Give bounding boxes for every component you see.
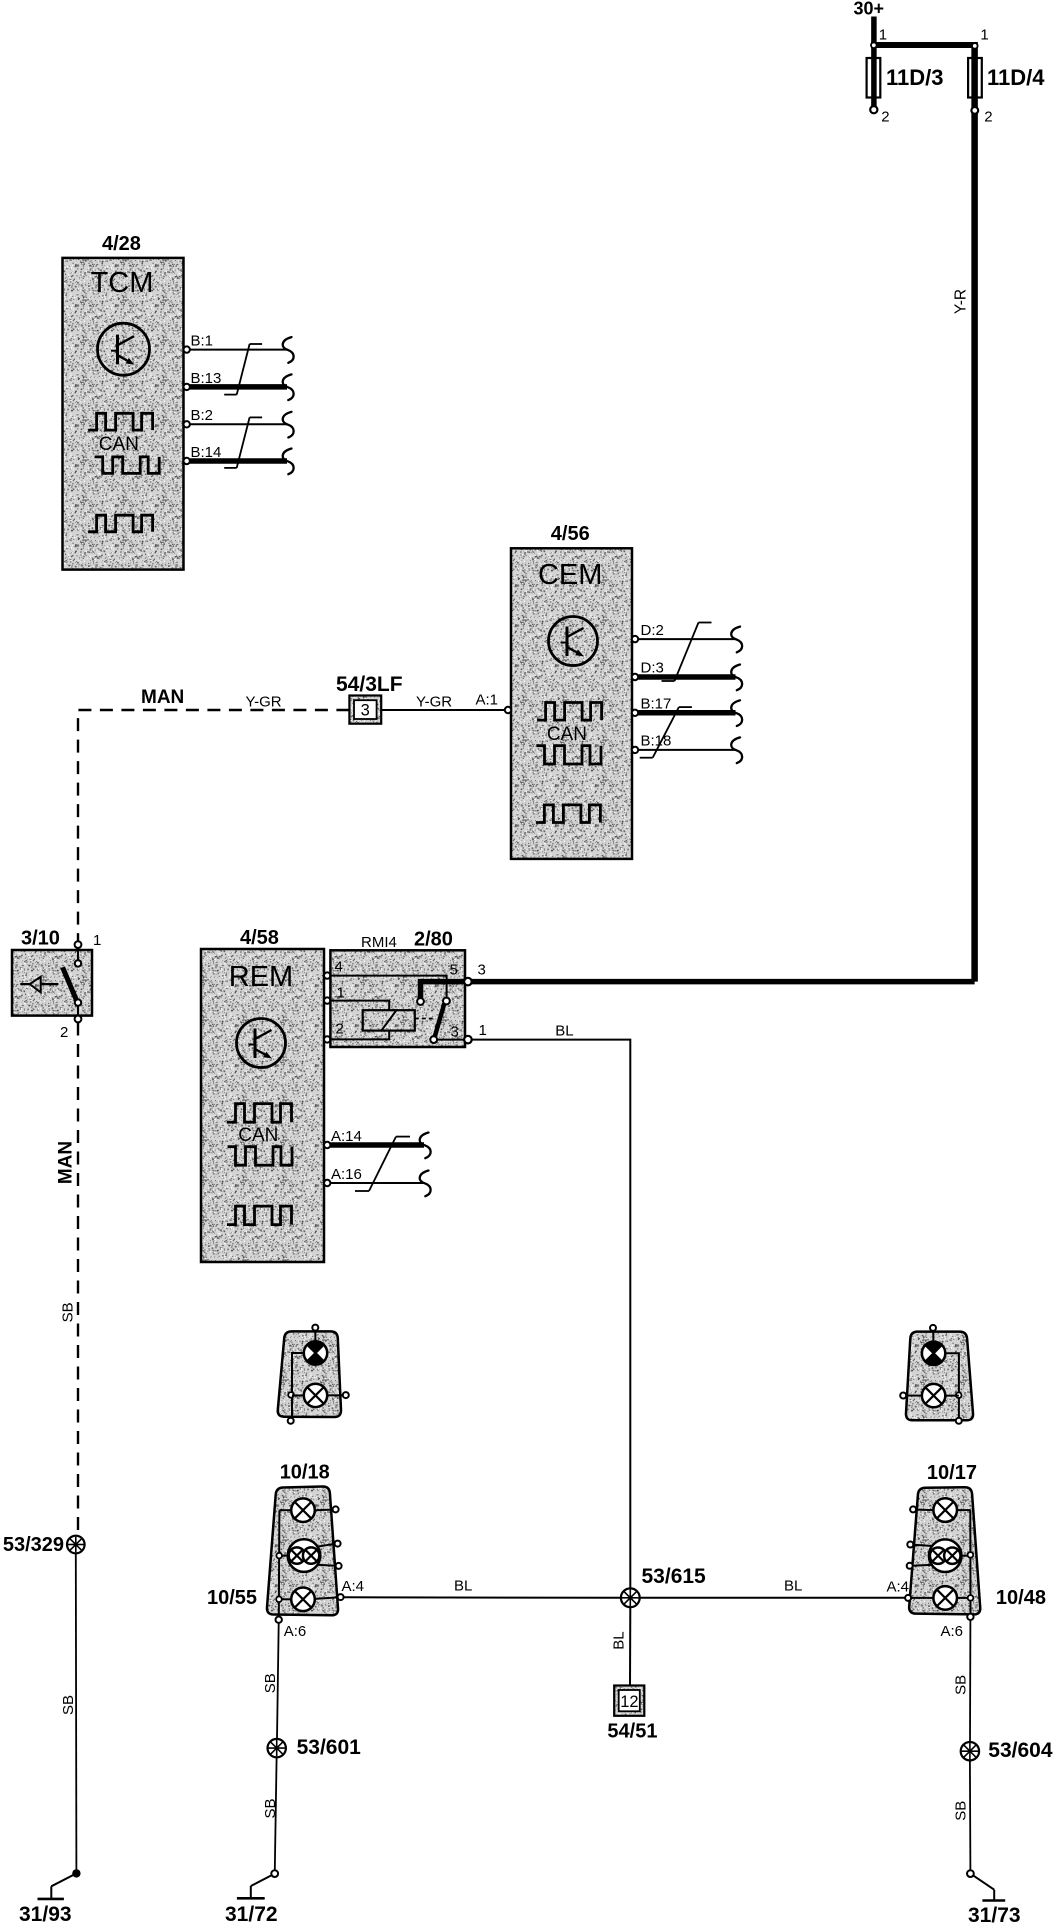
- TCM pin B:1: [184, 333, 294, 363]
- cable slash B:17/B:18: [640, 707, 692, 758]
- svg-text:TCM: TCM: [91, 267, 154, 299]
- cable slash D:2/D:3: [662, 623, 712, 682]
- right upper lamp bulb 2: [922, 1384, 945, 1407]
- CAN symbol in TCM: [88, 413, 159, 532]
- svg-text:BL: BL: [611, 1631, 628, 1649]
- wire Y-R horizontal to relay pin 3: [468, 289, 975, 982]
- svg-text:4: 4: [335, 959, 343, 976]
- svg-text:1: 1: [879, 27, 887, 44]
- 10/17 dual filament bulbs: [930, 1548, 961, 1564]
- relay pin 3 thick wire to contact: [417, 962, 486, 1005]
- svg-text:53/329: 53/329: [3, 1534, 64, 1556]
- 10/17 pin A:6: [941, 1614, 974, 1640]
- CEM pin B:18: [632, 733, 742, 764]
- power feed label 30+: [854, 0, 885, 19]
- svg-text:5: 5: [450, 962, 458, 979]
- TCM pin B:14: [184, 444, 294, 474]
- wire Y-R main feed vertical: [971, 42, 978, 982]
- svg-text:2: 2: [60, 1024, 68, 1041]
- svg-text:2: 2: [984, 109, 992, 126]
- tail lamp 10/18 box: [207, 1462, 338, 1616]
- svg-text:3/10: 3/10: [21, 928, 60, 950]
- svg-text:4/56: 4/56: [551, 523, 590, 545]
- svg-text:1: 1: [337, 985, 345, 1002]
- svg-text:4/58: 4/58: [240, 927, 279, 949]
- svg-text:31/72: 31/72: [225, 1903, 278, 1923]
- svg-text:A:6: A:6: [941, 1623, 964, 1640]
- svg-text:53/604: 53/604: [988, 1739, 1053, 1762]
- svg-text:MAN: MAN: [56, 1141, 77, 1184]
- svg-text:4/28: 4/28: [102, 233, 141, 255]
- TCM pin B:2: [184, 407, 294, 438]
- svg-text:SB: SB: [262, 1798, 279, 1818]
- svg-text:B:13: B:13: [191, 370, 222, 387]
- svg-text:BL: BL: [784, 1578, 802, 1595]
- svg-text:10/17: 10/17: [927, 1462, 977, 1484]
- svg-text:31/73: 31/73: [968, 1904, 1021, 1923]
- left upper internal wire: [288, 1353, 349, 1424]
- cable slash B:2/B:14: [224, 417, 262, 468]
- svg-text:2: 2: [881, 109, 889, 126]
- fuse 11D/4: [968, 27, 1045, 126]
- svg-text:CEM: CEM: [538, 559, 602, 591]
- fuse 11D/3: [867, 27, 944, 126]
- svg-text:BL: BL: [454, 1578, 472, 1595]
- svg-text:CAN: CAN: [547, 724, 587, 745]
- svg-text:1: 1: [479, 1022, 487, 1039]
- module 4/56 CEM box: [511, 523, 632, 859]
- junction 53/329: [3, 1534, 85, 1556]
- svg-text:REM: REM: [229, 961, 293, 993]
- wire REM pin to relay pin 4: [324, 972, 330, 978]
- relay coil: [330, 985, 436, 1040]
- svg-text:11D/4: 11D/4: [987, 65, 1045, 90]
- svg-text:30+: 30+: [854, 0, 885, 19]
- svg-text:B:18: B:18: [641, 733, 672, 750]
- wire BL from 53/615 to connector 54/51: [611, 1607, 631, 1685]
- svg-text:Y-GR: Y-GR: [246, 694, 282, 711]
- svg-text:CAN: CAN: [99, 434, 139, 455]
- svg-text:12: 12: [620, 1693, 638, 1711]
- svg-text:1: 1: [93, 932, 101, 949]
- svg-text:SB: SB: [59, 1302, 76, 1322]
- wire MAN dashed from switch to junction 53/329: [56, 1023, 78, 1536]
- svg-text:SB: SB: [60, 1695, 77, 1715]
- svg-text:A:4: A:4: [887, 1579, 910, 1596]
- svg-text:B:1: B:1: [191, 333, 214, 350]
- svg-text:3: 3: [361, 702, 370, 720]
- 10/18 dual filament lamp: [276, 1539, 341, 1572]
- ground 31/73: [967, 1870, 1021, 1923]
- module 4/58 REM box: [201, 927, 324, 1262]
- 10/18 dual filament bulbs: [289, 1547, 320, 1563]
- 10/18 lamp top: [291, 1498, 338, 1522]
- svg-text:10/18: 10/18: [280, 1462, 330, 1484]
- wire REM pin to relay pin 2: [324, 1036, 330, 1042]
- junction 53/604: [961, 1739, 1053, 1762]
- svg-text:3: 3: [451, 1024, 459, 1041]
- CEM pin D:3: [632, 660, 742, 691]
- svg-text:10/48: 10/48: [996, 1587, 1046, 1609]
- REM pin A:14: [324, 1128, 431, 1158]
- junction 53/615: [621, 1565, 706, 1607]
- svg-text:SB: SB: [262, 1673, 279, 1693]
- relay switch lever: [430, 1004, 487, 1044]
- wire Y-GR from 54/3LF to CEM A:1: [381, 694, 505, 711]
- wire top link pin1 to pin1: [871, 42, 974, 48]
- wire MAN dashed from 54/3LF to switch 3/10: [78, 687, 349, 941]
- svg-text:2/80: 2/80: [414, 929, 453, 951]
- svg-text:D:2: D:2: [641, 622, 664, 639]
- connector 54/51 terminal 12: [607, 1686, 657, 1743]
- transistor symbol in REM: [237, 1019, 286, 1068]
- wire SB from 53/601 to ground: [262, 1757, 279, 1870]
- relay 2/80 RMI4 box: [330, 929, 465, 1048]
- svg-text:B:14: B:14: [191, 444, 222, 461]
- transistor symbol in TCM: [98, 323, 150, 375]
- 10/17 lamp top: [910, 1498, 957, 1522]
- left upper lamp bulb 2: [304, 1384, 327, 1407]
- wire SB from 53/604 to ground: [952, 1760, 970, 1870]
- 10/18 lamp bottom and pin A:4: [276, 1578, 364, 1611]
- switch 3/10 manual actuator symbol: [20, 977, 58, 993]
- wire BL from relay pin 1 to junction 53/615: [472, 1023, 630, 1589]
- 10/17 dual filament lamp: [907, 1539, 974, 1572]
- svg-text:BL: BL: [555, 1023, 573, 1040]
- left upper lamp bulb 1 (filled): [304, 1341, 327, 1365]
- svg-text:10/55: 10/55: [207, 1587, 257, 1609]
- right upper internal wire: [900, 1353, 962, 1424]
- ground 31/72: [225, 1870, 278, 1923]
- svg-text:1: 1: [980, 27, 988, 44]
- cable slash B:1/B:13: [224, 344, 262, 395]
- switch 3/10 pin 2: [60, 1016, 81, 1041]
- svg-text:54/3LF: 54/3LF: [336, 673, 403, 696]
- junction 53/601: [268, 1736, 362, 1759]
- svg-text:A:6: A:6: [284, 1623, 307, 1640]
- svg-text:B:2: B:2: [191, 407, 214, 424]
- wire SB from 10/17 A:6 to 53/604: [952, 1620, 970, 1742]
- 10/18 pin A:6: [276, 1617, 307, 1641]
- 10/18 internal left wire: [279, 1510, 291, 1616]
- CEM pin A:1: [476, 692, 512, 714]
- CAN symbol in REM: [227, 1104, 292, 1225]
- wire BL left from 10/18 A:4: [344, 1578, 621, 1598]
- wire 30+ feed to fuse 11D/3: [871, 17, 877, 107]
- connector 54/3LF: [336, 673, 403, 724]
- CEM pin D:2: [632, 622, 742, 652]
- svg-text:CAN: CAN: [238, 1125, 278, 1146]
- svg-text:A:4: A:4: [342, 1578, 365, 1595]
- wire SB from 53/329 to ground: [60, 1553, 77, 1869]
- svg-text:2: 2: [336, 1021, 344, 1038]
- left rear lamp upper assembly: [278, 1325, 341, 1417]
- svg-text:11D/3: 11D/3: [886, 65, 944, 90]
- svg-text:MAN: MAN: [141, 687, 184, 708]
- 10/17 internal right wire: [957, 1510, 971, 1613]
- svg-text:54/51: 54/51: [607, 1721, 657, 1743]
- switch 3/10 box: [12, 928, 92, 1016]
- svg-text:RMI4: RMI4: [361, 934, 397, 951]
- svg-text:B:17: B:17: [641, 696, 672, 713]
- svg-text:53/601: 53/601: [297, 1736, 362, 1759]
- relay pin 4 wire to contact: [330, 959, 457, 1005]
- svg-text:53/615: 53/615: [642, 1565, 707, 1588]
- right rear lamp upper assembly: [906, 1325, 973, 1420]
- wire SB from 10/18 A:6 to 53/601: [262, 1623, 279, 1739]
- wire REM pin to relay pin 1: [324, 997, 330, 1003]
- ground 31/93: [19, 1869, 81, 1923]
- svg-text:A:16: A:16: [331, 1166, 362, 1183]
- svg-text:3: 3: [478, 962, 486, 979]
- cable slash A:14/A:16: [355, 1137, 410, 1191]
- REM pin A:16: [324, 1166, 431, 1196]
- switch 3/10 contacts and lever: [63, 960, 82, 1015]
- svg-text:SB: SB: [952, 1801, 969, 1821]
- wire BL right from 10/17 A:4: [640, 1578, 905, 1598]
- svg-text:A:14: A:14: [331, 1128, 362, 1145]
- tail lamp 10/17 box: [909, 1462, 1046, 1614]
- right upper lamp bulb 1 (filled): [922, 1342, 945, 1366]
- CEM pin B:17: [632, 696, 742, 727]
- transistor symbol in CEM: [549, 617, 598, 666]
- TCM pin B:13: [184, 370, 294, 400]
- svg-text:Y-GR: Y-GR: [416, 694, 452, 711]
- switch 3/10 pin 1: [75, 932, 102, 960]
- svg-text:SB: SB: [952, 1675, 969, 1695]
- svg-text:D:3: D:3: [641, 660, 664, 677]
- 10/17 lamp bottom and pin A:4: [887, 1579, 974, 1610]
- svg-text:Y-R: Y-R: [952, 289, 969, 314]
- module 4/28 TCM box: [63, 233, 184, 570]
- CAN symbol in CEM: [536, 703, 602, 823]
- svg-text:31/93: 31/93: [19, 1903, 72, 1923]
- svg-text:A:1: A:1: [476, 692, 499, 709]
